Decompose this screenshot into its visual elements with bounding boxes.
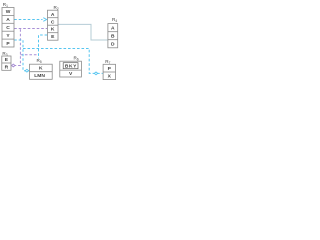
svg-text:R7: R7 <box>105 59 110 65</box>
svg-text:B: B <box>111 33 115 39</box>
svg-text:C: C <box>51 19 55 25</box>
svg-text:BKY: BKY <box>65 63 77 69</box>
wire: cyan dashed arrow R1.A to R2.A <box>14 19 42 21</box>
node R4 box (A B D) <box>108 24 118 48</box>
wire: purple open diamond into E-R box <box>12 64 15 67</box>
node BKY highlight rectangle <box>63 63 78 69</box>
svg-text:LMN: LMN <box>34 73 45 79</box>
svg-text:A: A <box>111 25 115 31</box>
wire: cyan open diamond into LMN box <box>25 69 28 72</box>
wire: purple dashed R1.C to R2.K <box>14 28 47 30</box>
wire: cyan arrowhead into R2 <box>43 18 46 22</box>
svg-text:R5: R5 <box>37 58 42 64</box>
svg-text:W: W <box>6 9 11 15</box>
node R2 box (A C K E) <box>48 10 59 40</box>
svg-text:D: D <box>111 41 115 47</box>
node R3 box (E R) <box>2 56 11 70</box>
node R5 box (K / LMN) <box>30 64 53 79</box>
svg-text:R: R <box>5 64 9 70</box>
svg-text:A: A <box>6 17 10 23</box>
svg-text:K: K <box>51 27 55 33</box>
wire: purple dashed horizontal to LMN <box>20 54 38 56</box>
wire: cyan dashed R1.P down to LMN K row <box>14 40 29 71</box>
wire: cyan dashed long run to P-X box <box>23 49 103 74</box>
svg-text:R4: R4 <box>112 17 117 23</box>
svg-text:K: K <box>39 66 43 72</box>
node R1 box (W A C Y P) <box>2 8 14 48</box>
svg-text:R1: R1 <box>3 2 8 8</box>
svg-text:A: A <box>51 12 55 18</box>
node R6 box (BKY / V) <box>60 61 82 77</box>
node R7 box (P X) <box>103 64 115 79</box>
svg-text:C: C <box>6 25 10 31</box>
svg-text:R6: R6 <box>74 56 79 62</box>
wire: pale solid connector R2 to R4 <box>58 24 108 40</box>
wire: purple dashed branch down to E-R box <box>11 29 20 65</box>
wire: cyan open diamond into P-X box <box>94 72 97 75</box>
wire: cyan dashed R2.E elbow down <box>39 35 48 59</box>
